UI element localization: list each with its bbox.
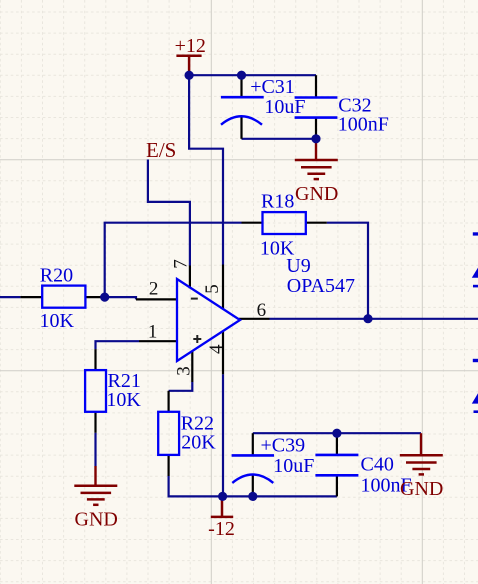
svg-text:10uF: 10uF: [273, 455, 314, 477]
resistor R22: [158, 412, 216, 455]
wire R21 to GND: [94, 433, 96, 466]
pin R21 top: [94, 349, 96, 370]
power port -12: [208, 496, 235, 540]
svg-text:6: 6: [257, 300, 267, 321]
pin R21 bottom: [94, 412, 96, 433]
wire +12 feed to pin5: [189, 75, 223, 264]
svg-text:E/S: E/S: [146, 138, 176, 162]
svg-text:OPA547: OPA547: [287, 275, 355, 297]
svg-text:+12: +12: [175, 35, 206, 57]
pin 1 op-amp: [139, 340, 177, 342]
net label fragment (cut) upper right: [472, 232, 478, 287]
wire C39/C40 top rail: [253, 432, 421, 434]
pin C39 top: [252, 433, 254, 455]
svg-text:+C39: +C39: [261, 435, 306, 457]
wire E/S to pin7: [148, 160, 190, 266]
pin R18 right: [306, 222, 327, 224]
wire +12 top rail: [189, 74, 316, 76]
svg-text:R20: R20: [40, 265, 73, 287]
op-amp plus mark: [193, 335, 201, 343]
svg-text:10K: 10K: [40, 310, 75, 332]
pin 2 op-amp: [136, 298, 177, 300]
pin 6 op-amp: [239, 318, 270, 320]
pin R20 right: [85, 296, 104, 298]
junction output node: [363, 314, 372, 323]
ground GND (right, C39/C40): [400, 455, 443, 474]
op-amp U9 OPA547: [177, 255, 355, 361]
GND stem right: [420, 433, 422, 455]
capacitor C32: [295, 95, 389, 136]
capacitor C39: [232, 435, 315, 483]
wire -12 rail: [169, 476, 337, 496]
wire input stub: [0, 296, 20, 298]
resistor R18: [260, 191, 306, 260]
wire C31/C32 bottom: [242, 138, 317, 140]
svg-text:100nF: 100nF: [338, 114, 389, 136]
svg-text:1: 1: [148, 321, 158, 342]
capacitor C40: [315, 454, 411, 497]
svg-text:4: 4: [206, 344, 227, 354]
svg-text:U9: U9: [286, 255, 310, 277]
junction C40 top: [332, 429, 341, 438]
wire junction to pin2: [105, 297, 136, 299]
pin C40 top: [336, 433, 338, 455]
svg-text:2: 2: [149, 279, 159, 300]
pin C31 bottom: [240, 117, 242, 139]
pin R18 left: [242, 222, 263, 224]
pin 5 op-amp: [222, 265, 224, 310]
ground GND (top, C31/C32): [295, 160, 338, 179]
junction C32 bottom / GND: [311, 134, 320, 143]
svg-text:7: 7: [170, 259, 191, 269]
svg-text:-12: -12: [208, 518, 235, 540]
resistor R21: [85, 370, 141, 412]
power port +12: [175, 35, 206, 75]
svg-text:R18: R18: [261, 191, 294, 213]
junction C31 top: [237, 71, 246, 80]
junction inverting input node: [100, 293, 109, 302]
wire R21 to pin1: [96, 341, 140, 349]
junction -12 rail / pin4: [218, 492, 227, 501]
junction +12 node: [185, 71, 194, 80]
svg-text:GND: GND: [75, 509, 118, 531]
wire output: [270, 318, 478, 320]
svg-text:20K: 20K: [181, 431, 216, 453]
pin C31 top: [240, 75, 242, 97]
svg-text:GND: GND: [400, 478, 443, 500]
junction C39 bottom: [248, 492, 257, 501]
svg-text:10K: 10K: [106, 389, 141, 411]
wire R18 left / feedback: [105, 223, 242, 297]
pin 3 op-amp: [191, 351, 193, 382]
svg-text:5: 5: [202, 284, 223, 294]
wire pin4 to -12 rail: [222, 374, 224, 496]
net label fragment (cut) lower right: [472, 359, 478, 413]
pin 4 op-amp: [222, 332, 224, 375]
svg-text:+C31: +C31: [250, 76, 295, 98]
pin C40 bottom: [336, 475, 338, 496]
svg-text:10uF: 10uF: [264, 96, 305, 118]
pin R22 bottom: [168, 455, 170, 476]
pin R22 top: [168, 391, 170, 412]
svg-text:3: 3: [173, 366, 194, 376]
GND stem left: [94, 466, 96, 486]
pin C39 bottom: [252, 475, 254, 497]
pin 7 op-amp: [189, 266, 191, 289]
ground GND (left, R21): [74, 486, 117, 505]
GND stem top: [315, 139, 317, 160]
resistor R20: [40, 265, 86, 332]
pin C32 bottom: [315, 118, 317, 139]
wire pin3 to R22: [169, 382, 193, 391]
op-amp minus mark: [191, 298, 198, 300]
svg-text:C40: C40: [361, 454, 394, 476]
pin C32 top: [315, 75, 317, 97]
svg-text:GND: GND: [295, 183, 338, 205]
wire R18 right to output: [327, 223, 368, 319]
capacitor C31: [221, 76, 306, 125]
pin R20 left: [20, 296, 42, 298]
